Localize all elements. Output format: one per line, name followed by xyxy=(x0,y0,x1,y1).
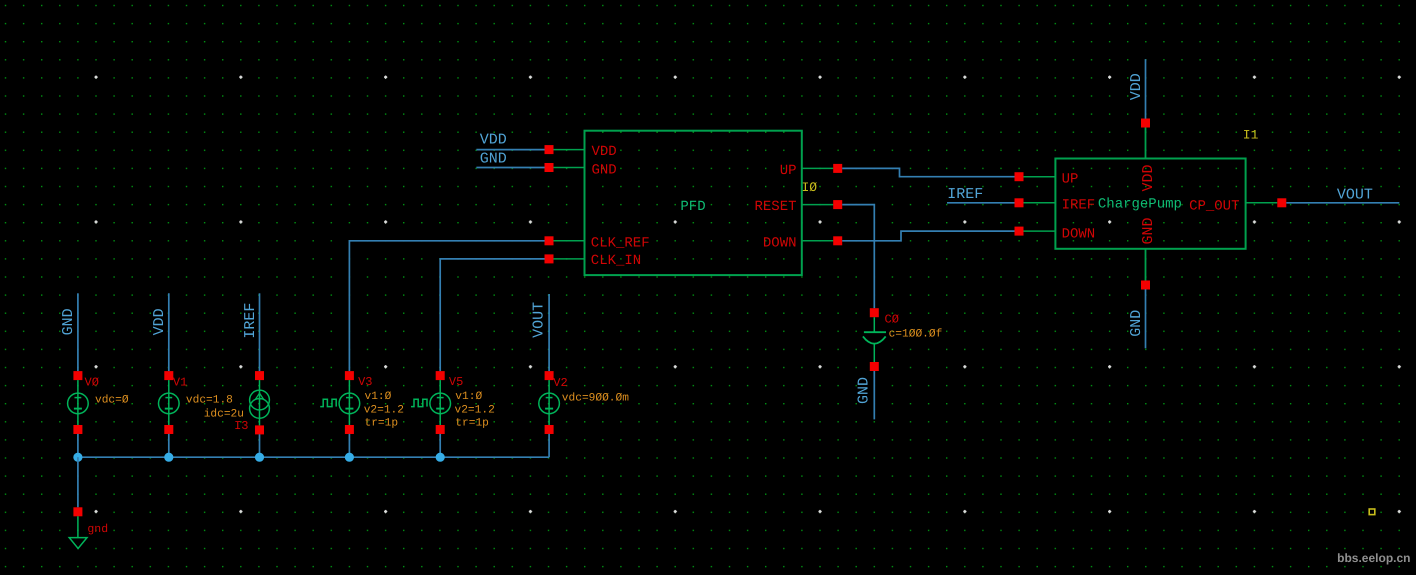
net label IREF (vertical, above I3) xyxy=(242,303,259,339)
svg-text:VDD: VDD xyxy=(480,132,507,149)
svg-text:VØ: VØ xyxy=(85,376,99,390)
svg-text:VDD: VDD xyxy=(592,144,617,160)
wire ground bus (horizontal) xyxy=(78,434,549,457)
svg-text:c=1ØØ.Øf: c=1ØØ.Øf xyxy=(889,328,943,341)
ChargePump pin DOWN xyxy=(1015,226,1096,242)
ChargePump pin UP xyxy=(1015,171,1079,187)
ChargePump pin IREF xyxy=(1015,198,1096,214)
svg-text:CLK_IN: CLK_IN xyxy=(591,253,641,269)
voltage source V3 (pulse) xyxy=(320,371,360,434)
net label GND (PFD supply) xyxy=(480,150,507,167)
net label GND (vertical, above V0) xyxy=(60,308,77,335)
junction dot at V1 xyxy=(164,453,173,462)
ChargePump block name label xyxy=(1098,196,1182,212)
V3 value label tr=1p xyxy=(365,418,399,430)
ground pin square xyxy=(73,507,82,516)
ChargePump pin GND (vertical) xyxy=(1140,217,1157,289)
PFD instance name I0 xyxy=(802,180,818,195)
selection marker (yellow square, bottom right) xyxy=(1369,509,1375,515)
wire CLK_REF net to V3 xyxy=(349,241,544,371)
V3 instance name xyxy=(358,375,372,389)
current source I3 xyxy=(250,371,270,434)
svg-text:V1: V1 xyxy=(173,376,187,390)
PFD pin CLK_REF xyxy=(545,235,650,251)
svg-text:GND: GND xyxy=(60,308,77,335)
svg-text:v2=1.2: v2=1.2 xyxy=(364,404,404,416)
wire VDD above ChargePump xyxy=(1145,59,1147,118)
svg-text:bbs.eelop.cn: bbs.eelop.cn xyxy=(1337,551,1410,565)
net label VDD (vertical, above V1) xyxy=(151,308,168,335)
V0 instance name xyxy=(85,376,99,390)
svg-text:UP: UP xyxy=(780,163,797,179)
svg-text:GND: GND xyxy=(1140,217,1157,244)
PFD pin CLK_IN xyxy=(545,253,642,269)
PFD pin VDD (stub+square+label) xyxy=(545,144,617,160)
ChargePump instance name I1 xyxy=(1243,127,1259,142)
I3 instance name xyxy=(234,419,248,433)
svg-text:VOUT: VOUT xyxy=(530,302,547,338)
wire net VOUT to V2 xyxy=(548,294,550,371)
junction dot at I3 xyxy=(255,453,264,462)
PFD pin DOWN xyxy=(763,235,842,251)
V5 value label v1:0 xyxy=(455,391,482,403)
wire to ground xyxy=(77,457,79,507)
net label VDD (vertical, ChargePump top) xyxy=(1128,73,1145,100)
svg-text:ChargePump: ChargePump xyxy=(1098,196,1182,212)
PFD instance box xyxy=(585,131,802,275)
svg-text:VOUT: VOUT xyxy=(1337,187,1373,204)
PFD pin GND xyxy=(545,162,617,178)
V1 value label vdc=1.8 xyxy=(186,394,233,407)
svg-text:IREF: IREF xyxy=(1062,198,1096,214)
V2 instance name xyxy=(553,376,567,390)
ChargePump pin CP_OUT xyxy=(1189,198,1286,214)
ground symbol xyxy=(69,516,87,548)
wire GND to PFD xyxy=(476,167,544,169)
V1 instance name xyxy=(173,376,187,390)
svg-text:vdc=Ø: vdc=Ø xyxy=(95,394,129,407)
svg-text:DOWN: DOWN xyxy=(763,235,797,251)
net label GND (vertical, below C0) xyxy=(856,377,873,404)
net label IREF xyxy=(947,186,983,203)
net label VOUT (output) xyxy=(1337,187,1373,204)
svg-text:IREF: IREF xyxy=(242,303,259,339)
wire VOUT output xyxy=(1286,202,1399,204)
junction dot at V3 xyxy=(345,453,354,462)
voltage source V2 xyxy=(539,371,560,434)
voltage source V1 xyxy=(159,371,180,434)
svg-text:VDD: VDD xyxy=(1140,164,1157,191)
svg-text:tr=1p: tr=1p xyxy=(365,418,399,430)
junction dot at V5 xyxy=(436,453,445,462)
V5 value label v2=1.2 xyxy=(455,404,495,416)
svg-text:VDD: VDD xyxy=(1128,73,1145,100)
svg-text:CP_OUT: CP_OUT xyxy=(1189,198,1239,214)
ChargePump pin VDD (vertical) xyxy=(1140,119,1157,192)
svg-text:CØ: CØ xyxy=(885,313,899,327)
PFD pin UP xyxy=(780,163,843,179)
wire net GND to V0 xyxy=(77,293,79,371)
V3 value label v2=1.2 xyxy=(364,404,404,416)
svg-text:vdc=1.8: vdc=1.8 xyxy=(186,394,233,407)
wire DOWN net xyxy=(842,231,1014,241)
V2 value label vdc=900.0m xyxy=(562,391,629,404)
svg-text:PFD: PFD xyxy=(680,199,705,215)
gnd net label xyxy=(87,523,108,536)
wire IREF net xyxy=(947,202,1015,204)
svg-text:GND: GND xyxy=(1128,310,1145,337)
svg-text:UP: UP xyxy=(1062,171,1079,187)
wire GND below C0 xyxy=(873,371,875,419)
I3 value label idc=2u xyxy=(204,407,244,420)
svg-text:v1:Ø: v1:Ø xyxy=(455,391,482,403)
svg-text:v1:Ø: v1:Ø xyxy=(365,391,392,403)
wire UP net xyxy=(842,168,1014,176)
svg-text:GND: GND xyxy=(480,150,507,167)
svg-text:IREF: IREF xyxy=(947,186,983,203)
V0 value label vdc=0 xyxy=(95,394,129,407)
svg-text:DOWN: DOWN xyxy=(1062,226,1096,242)
wire VDD to PFD xyxy=(476,149,544,151)
wire RESET net to C0 xyxy=(842,205,874,309)
V5 value label tr=1p xyxy=(455,418,489,430)
wire net IREF to I3 xyxy=(259,293,261,371)
junction dot at V0 xyxy=(73,453,82,462)
svg-text:I3: I3 xyxy=(234,419,248,433)
PFD pin RESET xyxy=(754,199,842,215)
svg-text:V5: V5 xyxy=(449,375,463,389)
ChargePump instance box xyxy=(1055,159,1245,249)
wire CLK_IN net to V5 xyxy=(440,259,544,371)
C0 value label c=100.0f xyxy=(889,328,943,341)
wire GND below ChargePump xyxy=(1145,289,1147,348)
V5 instance name xyxy=(449,375,463,389)
net label GND (vertical, ChargePump bottom) xyxy=(1128,310,1145,337)
svg-text:v2=1.2: v2=1.2 xyxy=(455,404,495,416)
svg-text:tr=1p: tr=1p xyxy=(455,418,489,430)
V3 value label v1:0 xyxy=(365,391,392,403)
voltage source V0 xyxy=(68,371,89,434)
svg-text:V2: V2 xyxy=(553,376,567,390)
PFD block name label xyxy=(680,199,705,215)
net label VOUT (vertical, above V2) xyxy=(530,302,547,338)
voltage source V5 (pulse) xyxy=(411,371,451,434)
svg-text:I1: I1 xyxy=(1243,127,1259,142)
capacitor C0 xyxy=(863,308,886,371)
svg-text:GND: GND xyxy=(856,377,873,404)
svg-text:VDD: VDD xyxy=(151,308,168,335)
svg-text:vdc=9ØØ.Øm: vdc=9ØØ.Øm xyxy=(562,391,629,404)
svg-text:RESET: RESET xyxy=(754,199,796,215)
svg-text:V3: V3 xyxy=(358,375,372,389)
svg-text:IØ: IØ xyxy=(802,180,818,195)
wire net VDD to V1 xyxy=(168,293,170,371)
C0 instance name xyxy=(885,313,899,327)
svg-text:GND: GND xyxy=(592,162,617,178)
svg-text:gnd: gnd xyxy=(87,523,108,536)
net label VDD (PFD supply) xyxy=(480,132,507,149)
svg-text:CLK_REF: CLK_REF xyxy=(591,235,650,251)
watermark bbs.eelop.cn xyxy=(1337,551,1410,565)
